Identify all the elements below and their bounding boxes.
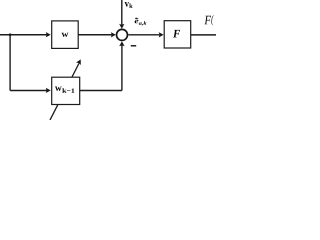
wire left feedback vertical [9, 35, 11, 91]
wire w_k-1 output to feedback [80, 90, 122, 92]
minus sign [131, 45, 136, 47]
wire v_k input [119, 0, 124, 29]
label v_k [125, 2, 133, 8]
adaptation diagonal arrow [50, 59, 81, 120]
block F [164, 21, 191, 48]
label F [173, 30, 180, 38]
label w_k-1 [55, 87, 74, 93]
label F[ [204, 15, 214, 25]
node junction dot [9, 33, 12, 36]
summing junction [117, 29, 128, 40]
block W_k-1 [52, 77, 80, 104]
wire w to summer [78, 32, 116, 37]
label e_a,k [135, 18, 147, 26]
wire summer to F [128, 32, 163, 37]
wire feedback up into summer [119, 41, 124, 90]
arrowhead into w box [46, 32, 51, 37]
wire input rail [0, 34, 47, 36]
wire F output [191, 34, 216, 36]
label w [62, 33, 69, 37]
block W [52, 21, 78, 49]
wire bottom rail into w_k-1 [10, 88, 51, 93]
